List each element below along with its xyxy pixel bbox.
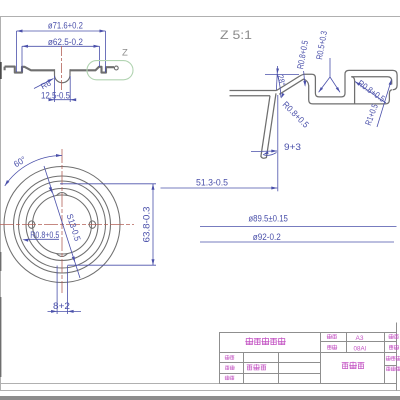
svg-text:08Al: 08Al xyxy=(354,345,367,352)
center lines red xyxy=(0,149,134,293)
edge curl circle xyxy=(114,66,118,70)
svg-text:ø89.5±0.15: ø89.5±0.15 xyxy=(248,214,288,224)
审核 xyxy=(225,376,229,380)
数量 (cut at right) xyxy=(389,345,393,349)
svg-text:Z: Z xyxy=(122,48,128,59)
left frame dark segments xyxy=(0,62,2,79)
比例 (cut at right) xyxy=(389,334,394,338)
设计 xyxy=(225,355,229,359)
svg-text:ø71.6+0.2: ø71.6+0.2 xyxy=(48,20,83,30)
第1张 xyxy=(386,367,390,371)
绘图 xyxy=(225,366,229,370)
profile main xyxy=(5,66,119,83)
svg-text:ø92-0.2: ø92-0.2 xyxy=(253,232,281,242)
svg-text:R0.8+0.5: R0.8+0.5 xyxy=(30,230,59,240)
detail view dimensions xyxy=(161,58,392,191)
svg-text:ø62.5-0.2: ø62.5-0.2 xyxy=(48,37,83,47)
dimensions of section view xyxy=(17,31,106,102)
svg-text:51.3-0.5: 51.3-0.5 xyxy=(196,178,228,188)
svg-text:Z 5:1: Z 5:1 xyxy=(220,30,252,42)
circular view dimensions xyxy=(5,156,156,315)
red centerline of section xyxy=(61,46,63,91)
黄金鹏 xyxy=(247,365,252,370)
dome bump R6 xyxy=(55,69,71,82)
svg-text:A3: A3 xyxy=(356,335,364,342)
Z detail marker xyxy=(87,61,133,80)
共1张 xyxy=(386,356,390,360)
材料 xyxy=(327,345,331,349)
制件图 xyxy=(342,363,348,369)
图号 xyxy=(327,334,332,338)
svg-text:8+2: 8+2 xyxy=(53,301,70,311)
title block texts: CJK approximated with vector glyphs xyxy=(246,338,286,345)
bottom dark bar xyxy=(0,396,400,400)
svg-text:12.5-0.5: 12.5-0.5 xyxy=(41,91,70,101)
滤油器支架 xyxy=(246,338,253,345)
svg-text:63.8-0.3: 63.8-0.3 xyxy=(142,206,152,242)
svg-text:9+3: 9+3 xyxy=(284,142,301,152)
